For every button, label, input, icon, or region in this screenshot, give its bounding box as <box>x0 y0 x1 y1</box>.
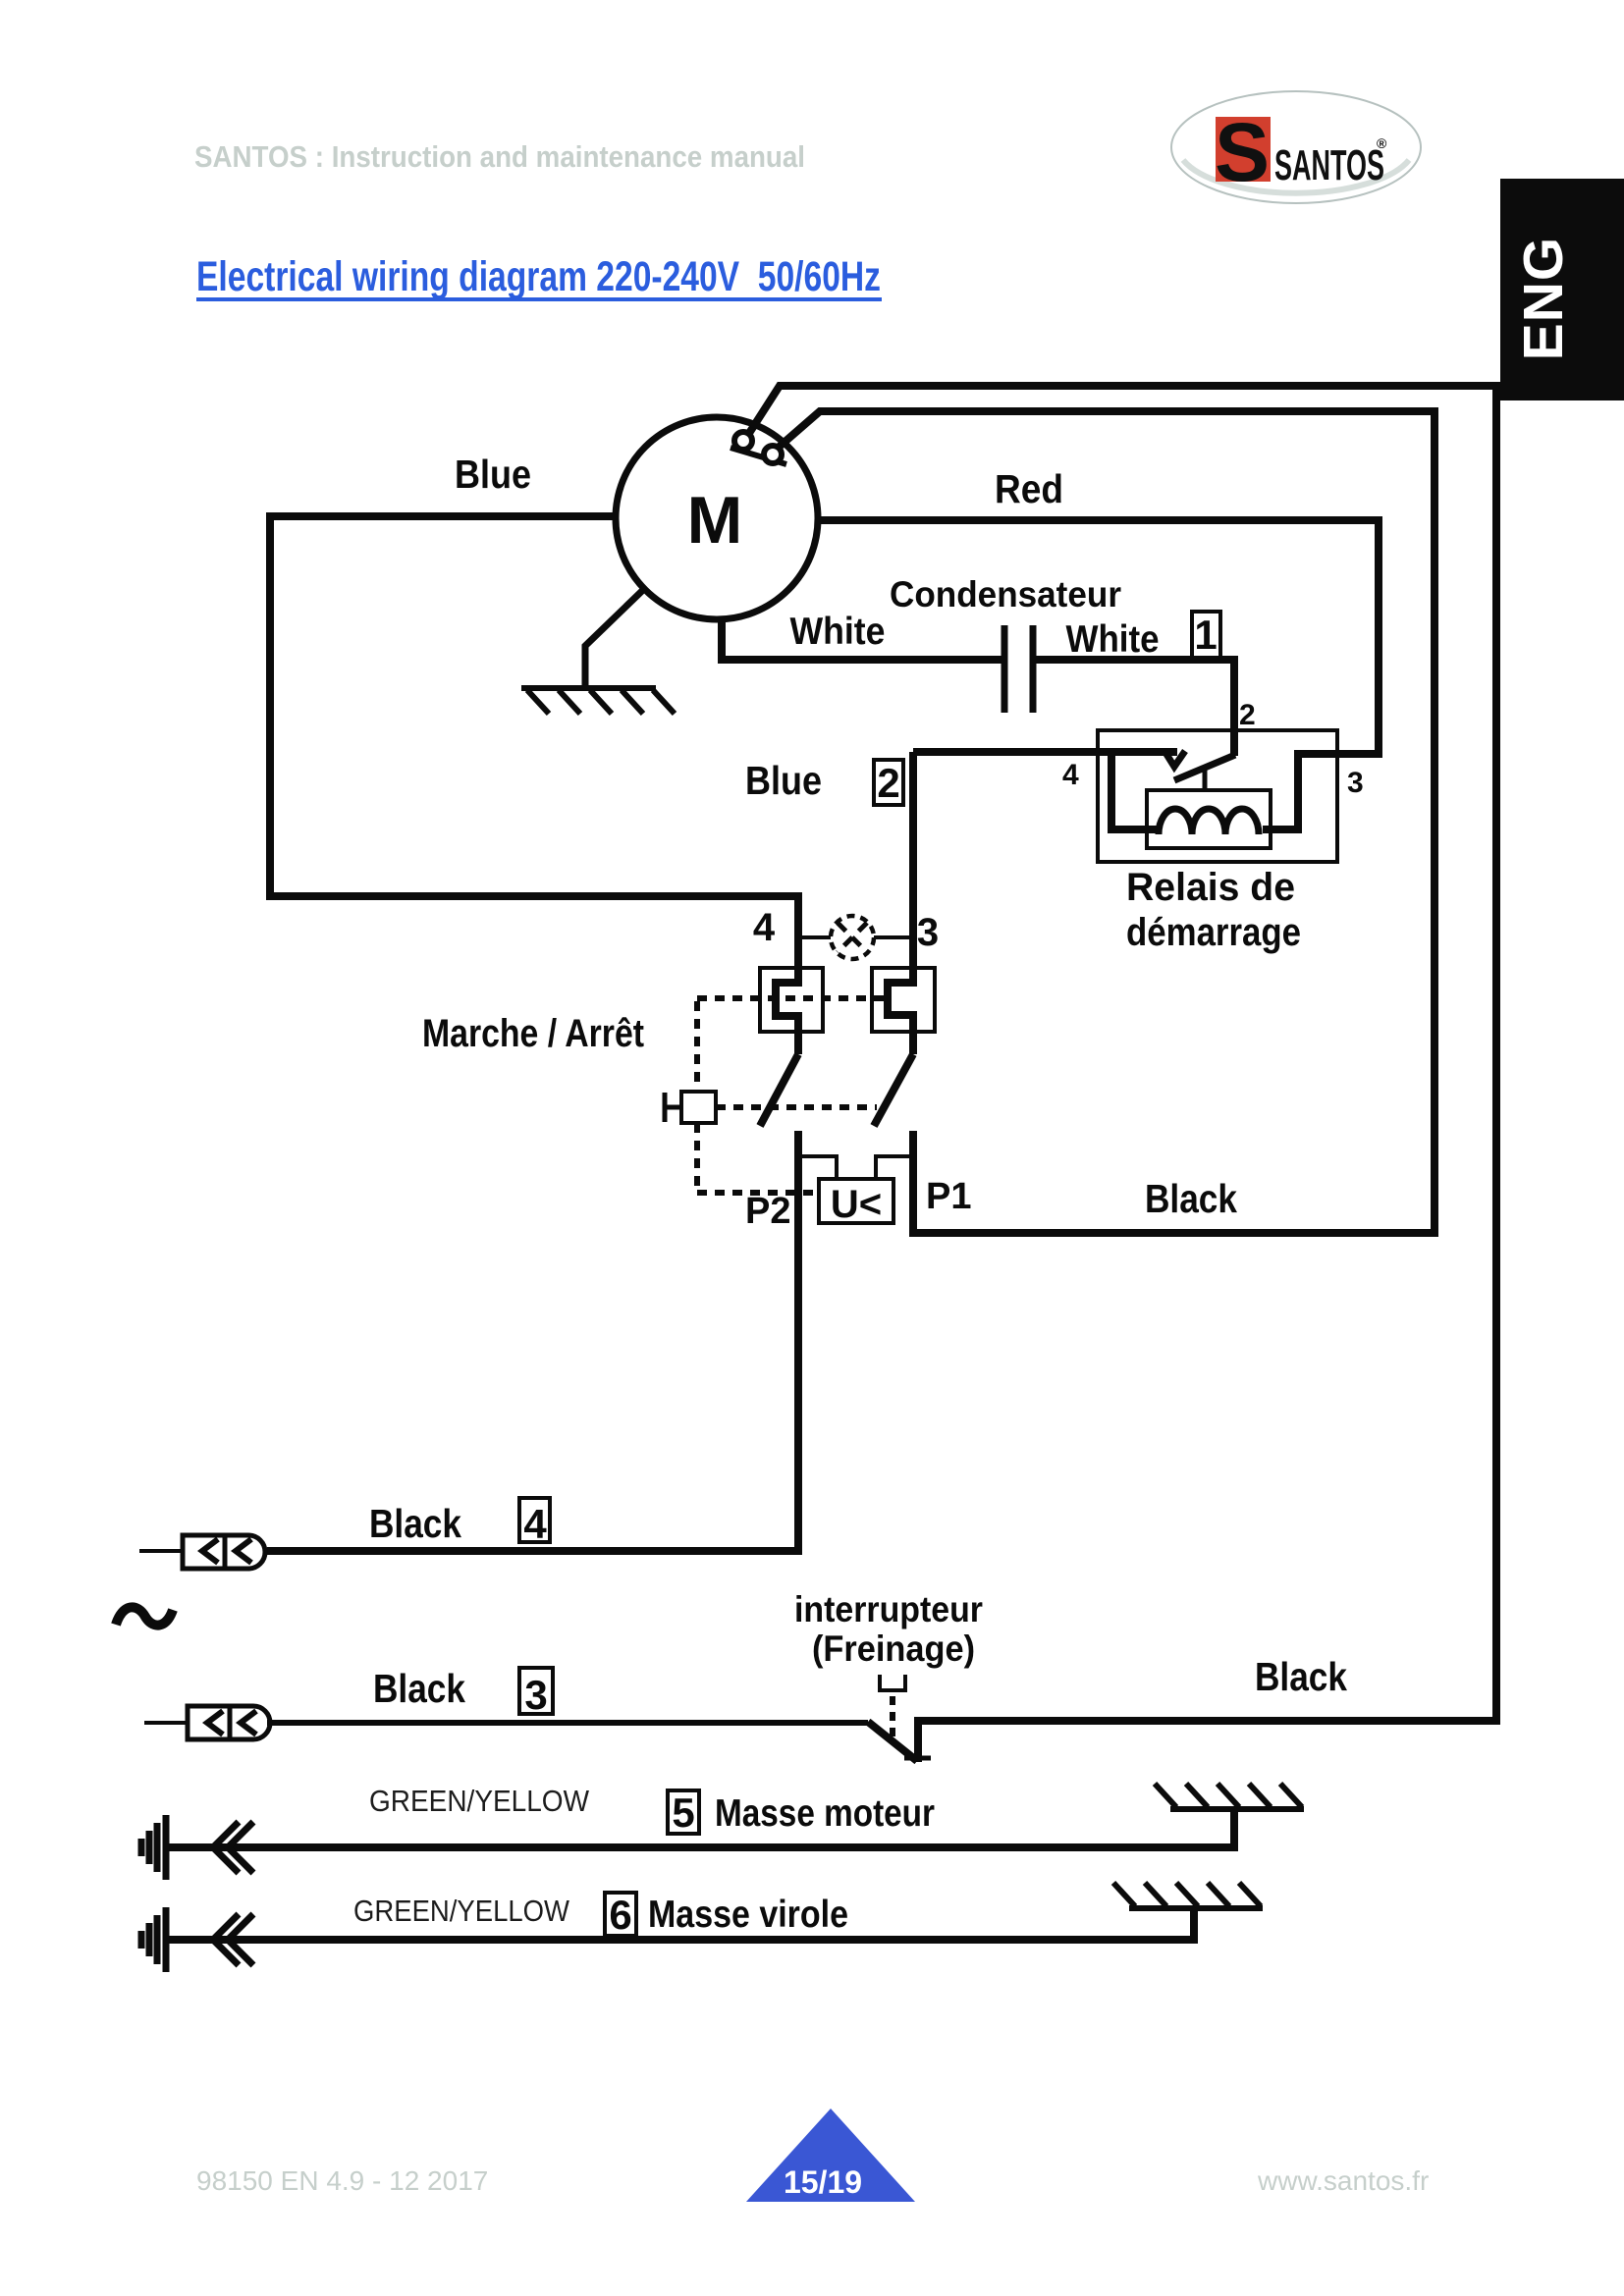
relay outer box <box>1098 730 1337 862</box>
wire: red (motor right to relay pin 3) <box>818 520 1379 829</box>
svg-text:U<: U< <box>831 1183 882 1226</box>
svg-text:interrupteur: interrupteur <box>794 1589 983 1629</box>
svg-text:Blue: Blue <box>455 452 531 497</box>
svg-text:Black: Black <box>369 1501 461 1546</box>
brake switch link (dotted) <box>890 1696 895 1741</box>
wire: black top inner (motor terminal B, right side down to P1 black wire) <box>775 411 1435 1233</box>
switch blade 3 <box>874 1054 913 1126</box>
svg-text:4: 4 <box>753 906 776 949</box>
svg-text:2: 2 <box>877 760 899 806</box>
svg-text:SANTOS: SANTOS <box>1274 141 1384 189</box>
wire: black 3 (connector to brake switch) <box>267 1720 868 1726</box>
relay coil box <box>1147 790 1271 848</box>
wire: white (motor bottom to capacitor) <box>722 616 1001 660</box>
svg-text:SANTOS : Instruction and maint: SANTOS : Instruction and maintenance man… <box>194 139 805 174</box>
wire: lamp stubs <box>801 935 910 939</box>
svg-text:Blue: Blue <box>745 758 822 803</box>
earth terminal (left, masse moteur) <box>141 1815 253 1880</box>
terminal box 4 <box>519 1498 550 1542</box>
svg-text:Black: Black <box>1145 1176 1237 1221</box>
svg-text:3: 3 <box>917 911 939 954</box>
wire: blue (motor left, down, to Marche contact) <box>270 516 798 1054</box>
svg-text:P2: P2 <box>745 1191 790 1232</box>
svg-text:ENG: ENG <box>1512 237 1575 361</box>
svg-text:3: 3 <box>524 1672 547 1718</box>
circuit labels <box>369 452 1364 1938</box>
svg-text:Black: Black <box>373 1666 465 1711</box>
capacitor C1 (condensateur) <box>1004 625 1033 713</box>
svg-text:Black: Black <box>1255 1654 1347 1699</box>
connector (wire 3) <box>144 1706 270 1739</box>
undervoltage release U-less box <box>819 1179 893 1223</box>
U-box connection stubs <box>798 1156 913 1179</box>
relay contact arrowhead <box>1164 751 1185 767</box>
terminal box 2 <box>874 760 903 805</box>
SANTOS logo <box>1171 91 1421 203</box>
svg-text:White: White <box>790 611 886 653</box>
wire: blue pin 4 (node 2 wire into relay) <box>913 748 1177 756</box>
wire: white (capacitor to relay pin 2) <box>1036 660 1234 756</box>
svg-text:Red: Red <box>995 466 1063 511</box>
footer page triangle <box>746 2109 915 2202</box>
motor M <box>616 417 818 619</box>
ground (motor) <box>521 688 675 714</box>
svg-text:GREEN/YELLOW: GREEN/YELLOW <box>353 1894 570 1928</box>
svg-text:Relais de: Relais de <box>1126 866 1295 909</box>
svg-text:5: 5 <box>672 1789 694 1836</box>
terminal box 3 <box>519 1668 553 1714</box>
brake switch blade <box>868 1722 917 1761</box>
svg-text:6: 6 <box>609 1892 631 1938</box>
terminal box 6 <box>605 1893 636 1936</box>
motor terminal A <box>734 432 752 450</box>
svg-text:3: 3 <box>1347 767 1364 799</box>
switch contact 3 path <box>888 752 913 1054</box>
wire: relay pin 4 branch to coil left <box>1111 752 1161 829</box>
wire: P2 lower (contact 4 to Black wire 4) <box>267 1131 798 1551</box>
ground (masse moteur right) <box>1155 1784 1304 1809</box>
indicator lamp (dashed) <box>831 916 874 959</box>
svg-text:15/19: 15/19 <box>784 2164 862 2200</box>
switch contact 4 box (Marche/Arret) <box>760 968 823 1032</box>
pushbutton actuator <box>681 1092 716 1123</box>
svg-text:Masse moteur: Masse moteur <box>715 1792 935 1835</box>
svg-text:démarrage: démarrage <box>1126 911 1301 954</box>
earth terminal (left, masse virole) <box>141 1907 253 1972</box>
motor terminal strap <box>731 448 786 464</box>
switch contact 3 box <box>872 968 935 1032</box>
svg-text:1: 1 <box>1194 612 1217 658</box>
svg-text:www.santos.fr: www.santos.fr <box>1257 2165 1429 2196</box>
brake switch actuator bracket <box>880 1675 905 1690</box>
svg-text:Electrical wiring diagram 220-: Electrical wiring diagram 220-240V 50/60… <box>196 253 881 300</box>
AC source tilde <box>116 1607 173 1625</box>
svg-text:2: 2 <box>1239 699 1256 731</box>
ENG language tab <box>1500 179 1624 400</box>
svg-text:Marche / Arrêt: Marche / Arrêt <box>422 1012 644 1055</box>
svg-text:4: 4 <box>1062 759 1079 791</box>
wire: black top outer (motor terminal A to right edge, down to brake switch) <box>746 386 1496 1762</box>
svg-text:Masse virole: Masse virole <box>648 1894 848 1936</box>
relay coil <box>1159 809 1259 834</box>
svg-text:White: White <box>1066 618 1160 661</box>
svg-text:S: S <box>1215 106 1270 198</box>
svg-text:98150 EN 4.9 - 12 2017: 98150 EN 4.9 - 12 2017 <box>196 2165 488 2196</box>
terminal box 1 <box>1192 612 1220 659</box>
ground (masse virole right) <box>1113 1883 1263 1908</box>
switch blade 4 <box>760 1054 798 1126</box>
svg-text:P1: P1 <box>926 1176 971 1217</box>
relay contact blade <box>1174 755 1235 780</box>
wire: green/yellow masse virole <box>169 1907 1194 1940</box>
svg-text:M: M <box>687 483 743 558</box>
motor terminal B <box>764 446 782 463</box>
terminal box 5 <box>668 1790 699 1834</box>
brake switch contact tick <box>904 1756 931 1761</box>
svg-text:GREEN/YELLOW: GREEN/YELLOW <box>369 1784 590 1818</box>
connector (wire 4) <box>139 1535 265 1569</box>
ground leg (motor) <box>585 588 645 687</box>
svg-text:4: 4 <box>523 1501 547 1547</box>
svg-text:(Freinage): (Freinage) <box>812 1629 975 1669</box>
svg-text:Condensateur: Condensateur <box>890 574 1121 614</box>
mechanical link (dashed) <box>697 998 887 1193</box>
svg-text:®: ® <box>1377 135 1387 151</box>
wire: green/yellow masse moteur <box>169 1808 1234 1847</box>
relay contact stem <box>1203 769 1208 791</box>
